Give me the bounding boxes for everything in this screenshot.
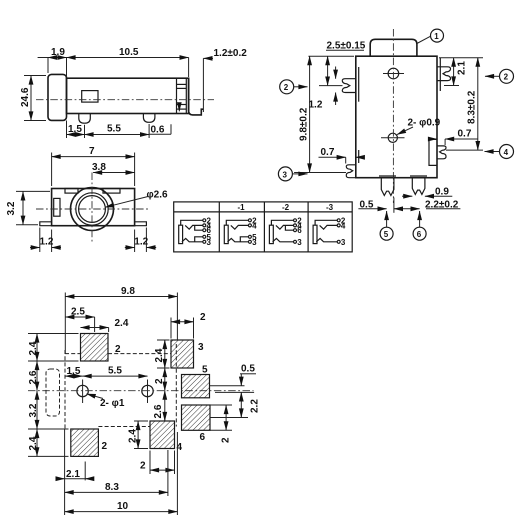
svg-text:3: 3 [297, 238, 302, 247]
circle 2 right [500, 69, 514, 83]
svg-text:3: 3 [207, 238, 212, 247]
svg-text:0.7: 0.7 [458, 129, 472, 140]
dim 1.9 line [38, 57, 48, 59]
svg-text:2.4: 2.4 [154, 348, 165, 362]
leg5 right ext [393, 198, 395, 213]
inner shell line left lower [358, 150, 360, 163]
dashed hidden line upper [65, 353, 81, 355]
dim 2.5 line [327, 56, 329, 85]
svg-text:-2: -2 [282, 203, 290, 212]
hole 2 vertical tick [147, 380, 149, 404]
svg-text:1.2: 1.2 [40, 237, 54, 248]
svg-text:0.7: 0.7 [321, 147, 335, 158]
svg-text:2.1: 2.1 [457, 61, 468, 75]
svg-text:-1: -1 [238, 203, 246, 212]
dim 5.5 line [83, 375, 148, 377]
svg-text:2: 2 [221, 437, 232, 443]
hole 1 vertical tick [82, 380, 84, 404]
arrow to leg 6 [419, 211, 421, 227]
circle 2 left [280, 80, 294, 94]
pad 4 [150, 421, 175, 449]
dim 2.1 underline [65, 478, 86, 480]
dim 24.6 ext top [24, 75, 46, 77]
top hole circle [388, 68, 399, 79]
schematic cell 3 jack symbol [269, 219, 296, 244]
dim 24.6 ext bottom [24, 120, 46, 122]
ladder rungs [177, 83, 187, 85]
dim 10 line [65, 511, 178, 513]
svg-text:1.2±0.2: 1.2±0.2 [214, 48, 248, 59]
dim 8.3±0.2 line [477, 58, 479, 150]
dim 2.4 ext [108, 328, 110, 333]
dim 0.5 arrow down [240, 374, 242, 386]
svg-text:2: 2 [140, 461, 146, 472]
dim 0.6 arrow [178, 103, 180, 111]
dim 1.2 right ext lines [134, 230, 136, 253]
svg-text:2- φ1: 2- φ1 [100, 398, 125, 409]
svg-text:2.4: 2.4 [128, 429, 139, 443]
shield leg 5 [381, 178, 394, 196]
svg-text:9.8±0.2: 9.8±0.2 [299, 107, 310, 141]
dim 5.5 line [85, 134, 150, 136]
circle 3 left [278, 167, 292, 181]
body outline [356, 56, 437, 178]
right chain ext lines [157, 339, 170, 341]
lug terminal 2 right [437, 67, 451, 81]
dim 1.2 left arrows [30, 247, 40, 249]
dim 9.8 line [65, 296, 177, 298]
top knob [370, 39, 417, 56]
dim 2 pad3 line [171, 321, 194, 323]
shield leg 6 [412, 178, 425, 195]
side tab left [54, 198, 60, 216]
lug terminal 4 right step [429, 139, 437, 165]
outer circle [71, 188, 114, 231]
left chain ext lines [28, 333, 79, 335]
dim 2.5 ext [94, 317, 96, 332]
dim 2.2 line segment [426, 208, 460, 210]
dim 2.4 pad4 ext lines [134, 420, 148, 422]
svg-text:-3: -3 [326, 203, 334, 212]
middle hole cross line [381, 137, 405, 139]
inner circle hole [79, 196, 106, 223]
dim 2.1 ext [84, 462, 86, 481]
svg-text:1: 1 [434, 32, 439, 41]
dim 0.7 left lines [319, 156, 346, 158]
svg-text:3: 3 [198, 342, 204, 353]
circle 6 [413, 227, 426, 240]
hole 2 [142, 385, 153, 396]
svg-text:3: 3 [252, 238, 257, 247]
pad 5 [182, 375, 210, 398]
svg-text:2.6: 2.6 [153, 404, 164, 418]
pad5 center ext [210, 385, 245, 387]
dim 10 ext right [176, 432, 178, 515]
pad 2 bottom-left [71, 429, 99, 456]
hole 1 [77, 385, 88, 396]
pad 3 [171, 340, 194, 368]
dim 2 pad3 ext lines [170, 318, 172, 339]
inner window detail [82, 91, 98, 103]
svg-text:1.5: 1.5 [68, 124, 82, 135]
dim 10.5 ext right [188, 58, 190, 78]
dim 0.5 underline [240, 373, 256, 375]
dim 9.8 bottom ext [294, 172, 346, 174]
dim 24.6 line [30, 76, 32, 121]
dim 2.5 underline [326, 49, 364, 51]
leader circle 2 right [485, 75, 500, 77]
dim bottom middle segment [394, 208, 420, 210]
svg-text:3: 3 [341, 238, 346, 247]
dim 1.2 left ext lines [39, 228, 41, 253]
dim 10.5 line [67, 57, 189, 59]
leg 1 [79, 114, 91, 124]
dim 0.7 right arrow2 [429, 138, 437, 140]
svg-text:8.3±0.2: 8.3±0.2 [467, 90, 478, 124]
svg-text:3: 3 [283, 170, 288, 179]
svg-text:5: 5 [384, 230, 389, 239]
top ext line left [308, 55, 354, 57]
centerline horizontal [36, 99, 214, 101]
svg-text:24.6: 24.6 [20, 87, 31, 107]
centerline right ext solid [215, 391, 254, 393]
circle 5 [380, 227, 393, 240]
svg-text:2: 2 [200, 312, 206, 323]
svg-text:10.5: 10.5 [119, 47, 139, 58]
svg-text:2: 2 [284, 83, 289, 92]
right chain dim lines [164, 340, 166, 368]
rear L bracket foot [189, 78, 204, 115]
dim 8.3 bottom ext [446, 149, 483, 151]
pad6 bottom ext [210, 429, 232, 431]
top view body [52, 189, 135, 226]
svg-text:2: 2 [504, 73, 509, 82]
middle hole circle [388, 133, 397, 142]
svg-text:5.5: 5.5 [107, 124, 121, 135]
centerline horizontal topview [36, 208, 150, 210]
svg-text:1.9: 1.9 [51, 47, 65, 58]
leader 2-phi0.9 [397, 127, 413, 135]
table frame [174, 202, 353, 252]
dim 7 line [52, 156, 135, 158]
svg-text:4: 4 [504, 148, 509, 157]
svg-text:6: 6 [417, 230, 422, 239]
dim 1.5 line [67, 134, 85, 136]
pad 2 top-left [81, 334, 109, 362]
svg-text:8.3: 8.3 [105, 482, 119, 493]
svg-text:3.8: 3.8 [92, 162, 106, 173]
dim 2.1 arrows [56, 478, 65, 480]
dim 2.4 line [81, 327, 109, 329]
left main ext vertical [64, 429, 66, 515]
top ext line right [439, 57, 483, 59]
svg-text:6: 6 [297, 226, 302, 235]
svg-text:2: 2 [102, 441, 108, 452]
circle 4 right [500, 145, 514, 159]
svg-text:4: 4 [341, 221, 346, 230]
dim 2 pad4 line [150, 469, 175, 471]
svg-text:2.4: 2.4 [28, 341, 39, 355]
dim 2.2 line [240, 392, 242, 417]
dim 0.7 left ext [345, 157, 347, 163]
leader circle 2 left [294, 86, 308, 88]
dim 1.2 arrows [335, 67, 337, 79]
dashed hidden line lower [98, 426, 150, 428]
dim 1.9 extension lines [47, 58, 49, 74]
pad 6 [182, 405, 211, 430]
dim 8.3 ext [167, 450, 169, 496]
leader phi2.6 [105, 197, 148, 208]
left chain dim line [36, 334, 38, 362]
right foot [135, 222, 147, 226]
leg 2 [143, 114, 155, 123]
svg-text:1.2: 1.2 [134, 237, 148, 248]
svg-text:2: 2 [154, 378, 165, 384]
leader circle 1 [417, 36, 431, 43]
dim 2 pad6 line [225, 405, 227, 430]
dim 3.8 line [93, 172, 135, 174]
lug terminal 4 right [437, 146, 446, 159]
middle circle [76, 193, 108, 225]
flange barrel front [48, 74, 67, 120]
dim 2.1 ext [444, 85, 459, 87]
centerline vertical topview [91, 173, 93, 243]
lug terminal 3 bottom-left [346, 165, 356, 178]
svg-text:1.5: 1.5 [67, 366, 81, 377]
dim 0.6 leader lines [150, 133, 172, 135]
inner shell line left [358, 67, 360, 102]
dim 1.2 right arrows [125, 247, 135, 249]
lug terminal 2 left [342, 79, 356, 93]
dim 1.2±0.2 arrow [203, 57, 213, 59]
top edge tab right [103, 189, 120, 194]
dim 0.9 lines [402, 195, 412, 197]
terminal stack ladder verticals [176, 78, 178, 113]
dim 1.5 5.5 ext lines [66, 121, 68, 139]
dashed body outline left vertical [64, 350, 66, 429]
svg-text:0.5: 0.5 [241, 364, 255, 375]
dim 3.2 line [22, 191, 24, 224]
top hole cross line [383, 73, 404, 75]
svg-text:4: 4 [252, 221, 257, 230]
arrow to leg 5 [386, 211, 388, 227]
dim 7 ext lines [51, 153, 53, 187]
svg-text:6: 6 [200, 432, 206, 443]
svg-text:2.4: 2.4 [115, 318, 129, 329]
svg-text:3.2: 3.2 [6, 201, 17, 215]
schematic cell 4 jack symbol [313, 219, 340, 244]
leader circle 4 right [485, 151, 500, 153]
schematic cell 2 jack symbol [224, 219, 251, 244]
svg-text:2.5: 2.5 [71, 307, 85, 318]
centerline bottom view [28, 390, 254, 392]
dim 0.7 right line [445, 138, 477, 140]
dim 1.5 line [65, 375, 82, 377]
schematic cell 1 jack symbol [179, 219, 206, 244]
svg-text:φ2.6: φ2.6 [147, 190, 168, 201]
dim 9.8 ext left [64, 293, 66, 354]
top edge tab left [65, 189, 78, 194]
svg-text:9.8: 9.8 [121, 286, 135, 297]
dim 1.2±0.2 ext line [202, 58, 204, 112]
dim 2.5 line [65, 316, 94, 318]
dim 2.5 bottom ext [319, 85, 343, 87]
leader 2-phi1 [87, 394, 103, 399]
dim 8.3 line [65, 491, 168, 493]
svg-text:5: 5 [202, 365, 208, 376]
pad6 center ext [210, 417, 248, 419]
svg-text:3.2: 3.2 [28, 403, 39, 417]
dashed body outline right vertical [175, 344, 177, 427]
svg-text:2.6: 2.6 [28, 370, 39, 384]
dim 3.2 ext lines [16, 190, 50, 192]
pad6 top ext [210, 404, 232, 406]
body main rectangle [67, 78, 189, 113]
dim bottom line segment A [358, 208, 386, 210]
dim 9.8 ext right [176, 293, 178, 341]
svg-text:2.4: 2.4 [28, 436, 39, 450]
circle 1 [431, 29, 444, 42]
leader circle 3 left [292, 173, 307, 175]
left foot [40, 222, 52, 226]
dim 0.7 right ext [444, 139, 446, 145]
svg-text:10: 10 [117, 501, 129, 512]
dim 2 pad4 ext lines [149, 451, 151, 475]
svg-text:1.2: 1.2 [309, 100, 323, 111]
inner shell line right [439, 58, 441, 91]
svg-text:7: 7 [89, 146, 95, 157]
dashed barrel rect [46, 369, 60, 416]
svg-text:5.5: 5.5 [108, 366, 122, 377]
vertical centerline [392, 29, 394, 203]
dim 2.4 pad4 line [137, 421, 139, 449]
dim 2.1 line [453, 58, 455, 86]
dim 9.8±0.2 line [309, 56, 311, 172]
leg root line [379, 175, 396, 177]
svg-text:2.2: 2.2 [250, 399, 261, 413]
